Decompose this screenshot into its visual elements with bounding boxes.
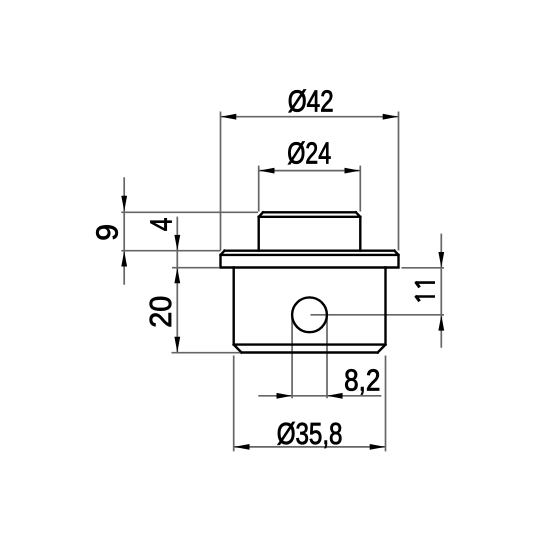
dimension 11 dimension line [440,234,442,348]
svg-text:Ø24: Ø24 [287,137,331,171]
svg-text:Ø42: Ø42 [288,85,334,119]
dimension 20 bottom arrowhead [174,337,180,353]
dimension 9 extension lines [121,212,258,250]
dimension 4 value label [145,218,179,232]
dimension 11 value label (two DIN-style "1" digits drawn as paths, rotated) [415,282,435,302]
dimension Ø42 dimension line [221,116,399,118]
dimension Ø35,8 dimension line [234,446,386,448]
part outline: lower body (Ø35.8) with chamfered bottom [234,268,386,353]
dimension Ø24 value label [287,137,331,171]
dimension 4 arrowheads [174,235,180,283]
dimension 9 arrowheads [121,196,127,267]
part outline: top boss (Ø24 cylinder) with chamfered top [259,212,361,250]
dimension 4 / 20 shared dimension line [176,217,178,353]
dimension Ø35,8 extension lines [234,356,386,452]
dimension 20 value label [144,296,178,328]
dimension 9 dimension line [123,177,125,284]
dimension 8,2 dimension line with tails [258,395,381,397]
part outline: cross hole (Ø8.2) [292,297,327,332]
dimension 9 value label [91,224,125,241]
svg-text:Ø35,8: Ø35,8 [277,417,343,451]
dimension Ø24 extension lines [259,166,361,212]
dimension Ø42 arrowheads [221,114,398,120]
dimension Ø42 value label [288,85,334,119]
dimension 8,2 extension lines [292,316,327,398]
dimension 11 arrowheads [438,252,444,331]
part outline: flange (Ø42 collar) with chamfered top edges [221,251,399,268]
dimension 8,2 value label [344,364,380,398]
dimension Ø24 dimension line [259,170,361,172]
dimension Ø42 extension lines [221,112,399,251]
svg-text:8,2: 8,2 [344,364,380,398]
svg-text:20: 20 [144,296,178,328]
dimension Ø24 arrowheads [259,168,360,174]
dimension 11 extension lines [311,268,445,315]
svg-text:4: 4 [145,218,179,232]
dimension 8,2 arrowheads [277,393,343,399]
dimension Ø35,8 value label [277,417,343,451]
dimension 20 extension line (body bottom) [172,352,241,354]
dimension 4 extension line (flange bottom) [172,267,219,269]
dimension Ø35,8 arrowheads [234,444,385,450]
svg-text:9: 9 [91,224,125,241]
